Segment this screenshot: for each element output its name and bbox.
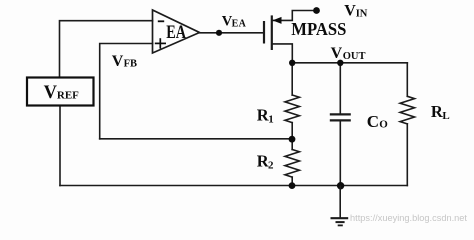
wire: feedback horizontal to R1/R2 node <box>100 138 293 140</box>
wire: inverting input net (VREF top to EA minus input) <box>60 21 153 78</box>
wire: VREF bottom to ground rail <box>59 106 61 186</box>
wire: MPASS drain down to VOUT rail <box>272 44 293 63</box>
wire: VOUT rail <box>292 62 407 64</box>
resistor RL <box>400 96 414 124</box>
svg-text:V: V <box>344 3 356 20</box>
svg-text:O: O <box>379 119 388 131</box>
wire: R1 bottom lead to feedback node <box>291 123 293 139</box>
wire: EA plus input from feedback <box>100 44 153 139</box>
svg-text:EA: EA <box>166 23 186 43</box>
capacitor Co top plate <box>330 113 351 115</box>
op-amp EA <box>153 10 200 53</box>
transistor MPASS gate bar <box>263 21 265 44</box>
svg-text:V: V <box>44 83 58 103</box>
svg-text:1: 1 <box>268 113 274 125</box>
node VIN terminal dot <box>313 7 320 14</box>
node R2 ground junction dot <box>289 182 296 189</box>
wire: R1 top lead <box>291 63 293 95</box>
transistor MPASS source arrow <box>273 17 282 24</box>
wire: RL bottom lead to ground rail <box>406 124 408 186</box>
svg-text:L: L <box>442 110 449 122</box>
node feedback junction dot <box>289 136 296 143</box>
wire: R2 bottom lead to ground rail <box>291 177 293 185</box>
wire: Co bottom lead to ground rail <box>339 121 341 186</box>
wire: Co top lead <box>339 63 341 115</box>
svg-text:V: V <box>331 45 343 62</box>
wire: ground bottom rail <box>60 185 407 187</box>
node VOUT junction dot (Co branch) <box>337 60 343 66</box>
svg-text:OUT: OUT <box>343 51 366 62</box>
ground <box>331 186 349 226</box>
svg-text:REF: REF <box>57 90 79 102</box>
svg-text:https://xueying.blog.csdn.net: https://xueying.blog.csdn.net <box>350 213 467 224</box>
svg-text:C: C <box>367 112 379 131</box>
svg-text:EA: EA <box>232 19 247 30</box>
wire: MPASS source up to VIN terminal <box>272 11 317 21</box>
transistor MPASS channel bar <box>271 15 273 50</box>
VREF box <box>27 78 94 106</box>
node ground junction dot <box>337 182 344 189</box>
node VEA dot <box>216 30 222 36</box>
svg-text:IN: IN <box>356 8 368 19</box>
svg-text:2: 2 <box>268 159 274 171</box>
svg-text:FB: FB <box>124 59 137 70</box>
wire: R2 top lead <box>291 139 293 150</box>
capacitor Co bottom plate <box>330 119 351 121</box>
wire: VOUT rail down to RL <box>406 63 408 97</box>
resistor R1 <box>285 95 299 123</box>
op-amp plus sign <box>155 38 166 48</box>
resistor R2 <box>285 150 299 178</box>
op-amp minus sign <box>158 20 164 22</box>
svg-text:V: V <box>112 53 124 70</box>
node VOUT junction dot (drain) <box>289 60 295 66</box>
wire: EA output to MPASS gate <box>200 32 265 34</box>
svg-text:MPASS: MPASS <box>291 19 346 39</box>
